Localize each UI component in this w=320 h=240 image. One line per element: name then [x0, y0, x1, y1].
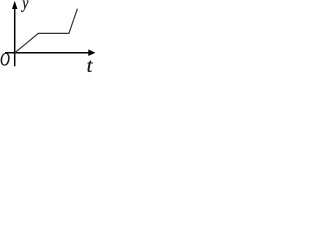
- svg-text:O: O: [0, 50, 10, 70]
- svg-text:t: t: [87, 55, 94, 74]
- svg-text:y: y: [20, 0, 28, 13]
